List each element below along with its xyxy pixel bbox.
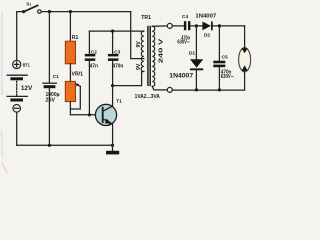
svg-text:S1: S1: [26, 1, 31, 6]
terminal node top: [167, 23, 172, 28]
lamp / discharge tube: [239, 48, 251, 72]
battery BT1: [7, 60, 30, 112]
node junction D1 bottom: [195, 88, 198, 91]
svg-text:9V: 9V: [136, 41, 142, 48]
wire to C4: [172, 25, 184, 27]
capacitor C2: [85, 31, 97, 115]
svg-text:1VA2...3VA: 1VA2...3VA: [135, 94, 161, 100]
wire feedback line: [89, 30, 143, 32]
svg-text:C4: C4: [182, 14, 189, 20]
wire base line: [70, 114, 102, 116]
svg-text:9V: 9V: [136, 63, 142, 70]
wire secondary bottom: [152, 87, 167, 90]
transistor T1: [95, 99, 122, 146]
svg-text:VR/1: VR/1: [72, 71, 84, 77]
wire lamp top drop: [244, 26, 246, 49]
capacitor C1: [43, 12, 59, 146]
node junction C3 top: [111, 30, 114, 33]
svg-text:C1: C1: [53, 74, 60, 80]
primary winding 9V+9V: [141, 31, 144, 71]
node junction emitter bottom: [111, 144, 114, 147]
svg-text:TR1: TR1: [141, 15, 151, 21]
node junction C1 top: [48, 10, 51, 13]
node junction C2 base: [88, 113, 91, 116]
svg-text:630V∼: 630V∼: [221, 74, 234, 80]
wire D2 to corner: [212, 25, 244, 27]
terminal node bottom: [167, 87, 172, 92]
node junction C5 bottom: [218, 88, 221, 91]
svg-text:BT1: BT1: [23, 63, 30, 69]
wire lamp bottom: [244, 72, 246, 90]
svg-text:12V: 12V: [21, 85, 33, 92]
wire collector down: [112, 86, 114, 107]
svg-text:47n: 47n: [90, 63, 98, 69]
svg-text:C5: C5: [222, 54, 229, 60]
diode D2: [202, 22, 212, 39]
secondary winding 240V: [152, 26, 155, 86]
node junction R1 top: [69, 10, 72, 13]
svg-text:1N4007: 1N4007: [195, 14, 216, 20]
node junction D1 top: [195, 24, 198, 27]
capacitor C3: [108, 31, 121, 86]
wire bottom rail right: [172, 89, 244, 91]
svg-text:R1: R1: [72, 35, 79, 41]
wire top rail (switch to transformer drop): [41, 11, 131, 13]
svg-text:25V: 25V: [46, 97, 56, 103]
wire bottom rail: [17, 144, 113, 146]
wire D1 top: [195, 26, 197, 59]
wire to D2: [196, 25, 202, 27]
wire collector to primary bottom: [113, 72, 144, 86]
wire secondary top: [152, 25, 167, 27]
diode D1: [189, 51, 203, 90]
node junction C5 top: [218, 24, 221, 27]
scan artifact left edge: [1, 12, 3, 95]
node junction C1 bottom: [48, 144, 51, 147]
switch S1: [22, 1, 41, 13]
svg-text:D1: D1: [189, 51, 196, 57]
wire battery bottom: [16, 112, 18, 145]
svg-text:470n: 470n: [113, 63, 124, 69]
wire top rail left (battery to switch): [17, 12, 24, 61]
potentiometer VR1: [65, 71, 83, 114]
resistor R1: [65, 12, 78, 82]
svg-text:1N4007: 1N4007: [169, 73, 193, 80]
capacitor C5: [213, 26, 228, 90]
node junction collector: [111, 84, 114, 87]
capacitor C4: [182, 14, 197, 30]
transformer core: [147, 27, 149, 86]
svg-text:630V∼: 630V∼: [177, 40, 190, 46]
svg-text:240 V: 240 V: [159, 39, 165, 64]
wire supply drop to center tap: [131, 12, 144, 59]
ground terminal bar: [106, 145, 119, 154]
svg-text:D2: D2: [204, 32, 211, 38]
svg-text:T1: T1: [116, 99, 122, 105]
transformer TR1: [135, 15, 165, 100]
